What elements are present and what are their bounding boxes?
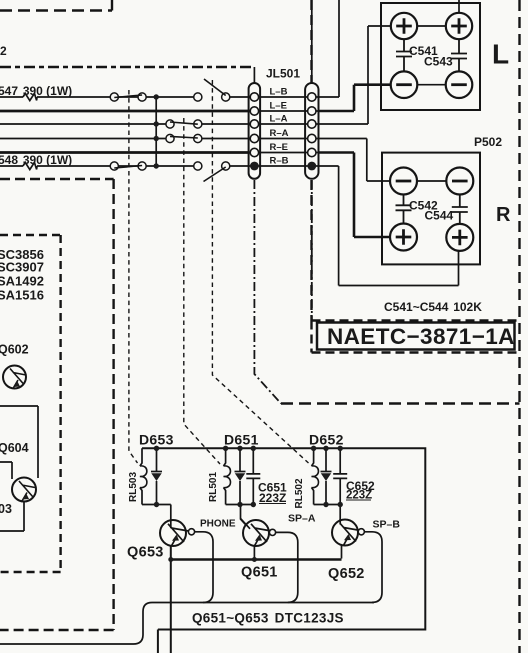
svg-text:2: 2: [0, 44, 7, 58]
svg-text:D652: D652: [309, 432, 344, 448]
svg-text:Q604: Q604: [0, 441, 29, 455]
svg-text:JL501: JL501: [266, 67, 300, 81]
svg-text:D653: D653: [139, 432, 174, 448]
svg-text:Q653: Q653: [127, 545, 164, 561]
svg-text:RL501: RL501: [208, 472, 219, 502]
svg-text:P502: P502: [474, 135, 502, 149]
svg-text:SP–B: SP–B: [373, 519, 401, 531]
svg-text:RL503: RL503: [128, 472, 139, 502]
svg-text:NAETC−3871−1A: NAETC−3871−1A: [327, 324, 515, 349]
svg-text:RL502: RL502: [294, 478, 305, 508]
svg-text:547 390 (1W): 547 390 (1W): [0, 84, 72, 98]
svg-text:03: 03: [0, 502, 12, 516]
svg-text:L–B: L–B: [270, 87, 288, 98]
svg-text:PHONE: PHONE: [200, 519, 236, 530]
svg-text:223Z: 223Z: [259, 491, 286, 505]
svg-text:SA1492: SA1492: [0, 274, 44, 289]
svg-text:SP–A: SP–A: [288, 513, 316, 525]
svg-text:R–B: R–B: [270, 156, 289, 167]
svg-text:R–E: R–E: [270, 142, 288, 153]
svg-text:R: R: [496, 204, 511, 226]
svg-text:L: L: [492, 39, 509, 70]
svg-text:C544: C544: [425, 209, 454, 223]
svg-text:L–E: L–E: [270, 101, 287, 112]
svg-text:Q652: Q652: [328, 566, 365, 582]
svg-text:D651: D651: [224, 432, 259, 448]
svg-text:548 390 (1W): 548 390 (1W): [0, 153, 72, 167]
svg-text:Q602: Q602: [0, 343, 29, 357]
svg-text:L–A: L–A: [270, 114, 288, 125]
svg-text:SA1516: SA1516: [0, 288, 44, 303]
svg-text:C543: C543: [424, 55, 453, 69]
svg-text:Q651~Q653 DTC123JS: Q651~Q653 DTC123JS: [192, 611, 344, 626]
svg-text:R–A: R–A: [270, 128, 289, 139]
svg-text:SC3907: SC3907: [0, 260, 44, 275]
svg-text:C541~C544 102K: C541~C544 102K: [384, 300, 482, 314]
svg-text:Q651: Q651: [241, 565, 278, 581]
